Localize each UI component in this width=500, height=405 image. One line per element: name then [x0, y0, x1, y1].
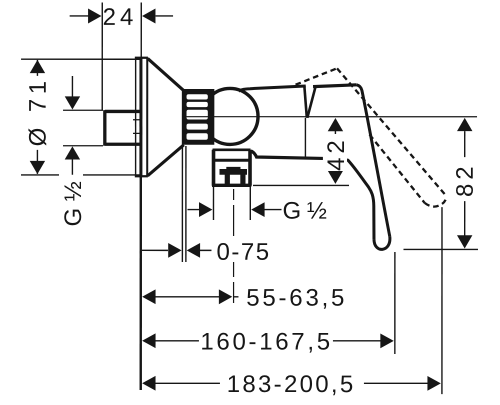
lever neck back line [307, 86, 315, 118]
extension line nipple top [63, 109, 103, 111]
extension line escutcheon front face top [140, 2, 142, 57]
label background 160-167,5 [199, 330, 333, 351]
dim 183-200,5 line [154, 382, 429, 384]
dim 24 line left tail [70, 15, 89, 17]
horizontal centerline of valve axis [187, 116, 477, 118]
extension line escutcheon top (dia 71) [21, 58, 140, 60]
dim 183-200,5 left arrowhead [142, 376, 155, 391]
dim 42 vertical line [334, 131, 336, 172]
dim 0-75 right arrowhead [187, 243, 200, 258]
dashed lever raised position tip [425, 196, 447, 206]
svg-text:160-167,5: 160-167,5 [200, 328, 332, 355]
label background dia71 [24, 77, 50, 149]
extension line escutcheon bottom (dia 71) [21, 174, 140, 176]
dim 55-63,5 left arrowhead [142, 289, 155, 304]
knurled union collar (black ring) [182, 89, 215, 145]
dim G1/2 outlet left arrowhead [199, 202, 212, 217]
dim 24 right arrowhead [142, 8, 155, 23]
dim 160-167,5 left arrowhead [142, 333, 155, 348]
extension line outlet nut left face [212, 187, 214, 220]
extension line grip tip vertical [394, 252, 396, 354]
dim 82 vertical line [464, 131, 466, 236]
dim dia71 top arrowhead [30, 60, 45, 73]
knurled union collar grooves (white slots) [187, 94, 208, 140]
outlet boss right edge [248, 150, 252, 186]
body right end face [304, 118, 306, 157]
dim 0-75 line left tail [142, 249, 168, 251]
dim 0-75 line right tail [200, 249, 212, 251]
extension line outlet nut right face [249, 187, 251, 220]
outlet boss left edge [212, 150, 216, 186]
lever neck front line [304, 86, 307, 118]
lever top edge [313, 85, 357, 87]
dim 0-75 left arrowhead [168, 243, 181, 258]
label background 0-75 [216, 240, 272, 262]
dim 160-167,5 line [154, 340, 382, 342]
escutcheon back plate edge [135, 58, 137, 177]
dim 82 top arrowhead [457, 118, 472, 131]
dim 24 left arrowhead [88, 8, 101, 23]
lever grip back edge [357, 85, 390, 237]
extension line nipple bottom [63, 145, 103, 147]
body bottom edge [251, 151, 323, 158]
outlet nut top edge [213, 159, 252, 162]
svg-text:42: 42 [323, 136, 350, 171]
wall supply nipple outline [105, 110, 141, 146]
extension line outlet nut bottom [253, 184, 349, 186]
svg-text:G ½: G ½ [283, 198, 327, 225]
dashed lever raised position top edge left part [296, 68, 338, 84]
label background 42 [323, 134, 347, 171]
outlet nut right facet divider [240, 174, 245, 185]
outlet nut crown bump [226, 167, 240, 171]
escutcheon cone bottom edge [148, 145, 184, 176]
body top edge [239, 86, 306, 91]
dim 82 bottom arrowhead [457, 235, 472, 248]
svg-text:183-200,5: 183-200,5 [227, 371, 356, 398]
svg-text:G ½: G ½ [60, 181, 87, 226]
dim G1/2 nipple vertical line [71, 76, 73, 175]
extension line wall reference plane [140, 177, 142, 390]
svg-text:55-63,5: 55-63,5 [246, 285, 347, 312]
dim 55-63,5 right arrowhead [219, 289, 232, 304]
outlet nut bottom edge [212, 184, 251, 187]
escutcheon rim bottom edge [135, 175, 148, 177]
lever grip rounded tip [374, 237, 390, 250]
extension line left end of nipple [101, 2, 103, 109]
dim G1/2 outlet right arrowhead [251, 202, 264, 217]
dashed lever raised position back edge [337, 68, 447, 196]
outlet boss top edge [213, 148, 251, 151]
escutcheon rim inner face [146, 58, 148, 175]
escutcheon rim front face [139, 57, 142, 177]
dim 183-200,5 right arrowhead [427, 376, 440, 391]
nipple inner step lines [133, 120, 141, 134]
lever grip front edge [323, 158, 374, 239]
extension double line sliding range right [185, 146, 187, 262]
outlet nut left facet divider [225, 174, 230, 185]
svg-text:Ø 71: Ø 71 [25, 76, 52, 146]
dim 24 line right tail [156, 15, 174, 17]
dim 55-63,5 line [154, 296, 239, 298]
valve body dome circle [202, 88, 258, 144]
extension line lever grip lowest point [403, 248, 477, 250]
svg-text:0-75: 0-75 [217, 239, 271, 266]
dim G1/2 outlet line left tail [187, 209, 199, 211]
dim G1/2 nipple bottom arrowhead [65, 146, 80, 159]
dim 42 top arrowhead [328, 118, 343, 131]
extension double line sliding range left [181, 146, 183, 262]
dim G1/2 outlet line right tail [264, 209, 281, 211]
svg-text:24: 24 [103, 4, 138, 31]
dim G1/2 nipple top arrowhead [65, 96, 80, 109]
dim dia71 bottom arrowhead [30, 161, 45, 174]
dashed lever raised position front edge [369, 135, 424, 203]
extension line dashed lever tip vertical [441, 207, 443, 394]
dim dia71 vertical line [36, 60, 38, 174]
escutcheon rim top edge [135, 57, 148, 59]
escutcheon cone top edge [148, 58, 184, 90]
svg-text:82: 82 [452, 162, 479, 197]
label background G1/2 nipple [62, 181, 84, 225]
outlet nut dark chamfer band [220, 169, 248, 175]
dim 42 bottom arrowhead [328, 171, 343, 184]
dim 160-167,5 right arrowhead [380, 333, 393, 348]
vertical centerline of outlet [233, 189, 235, 303]
label background 183-200,5 [220, 372, 364, 394]
label background 82 [453, 157, 476, 201]
